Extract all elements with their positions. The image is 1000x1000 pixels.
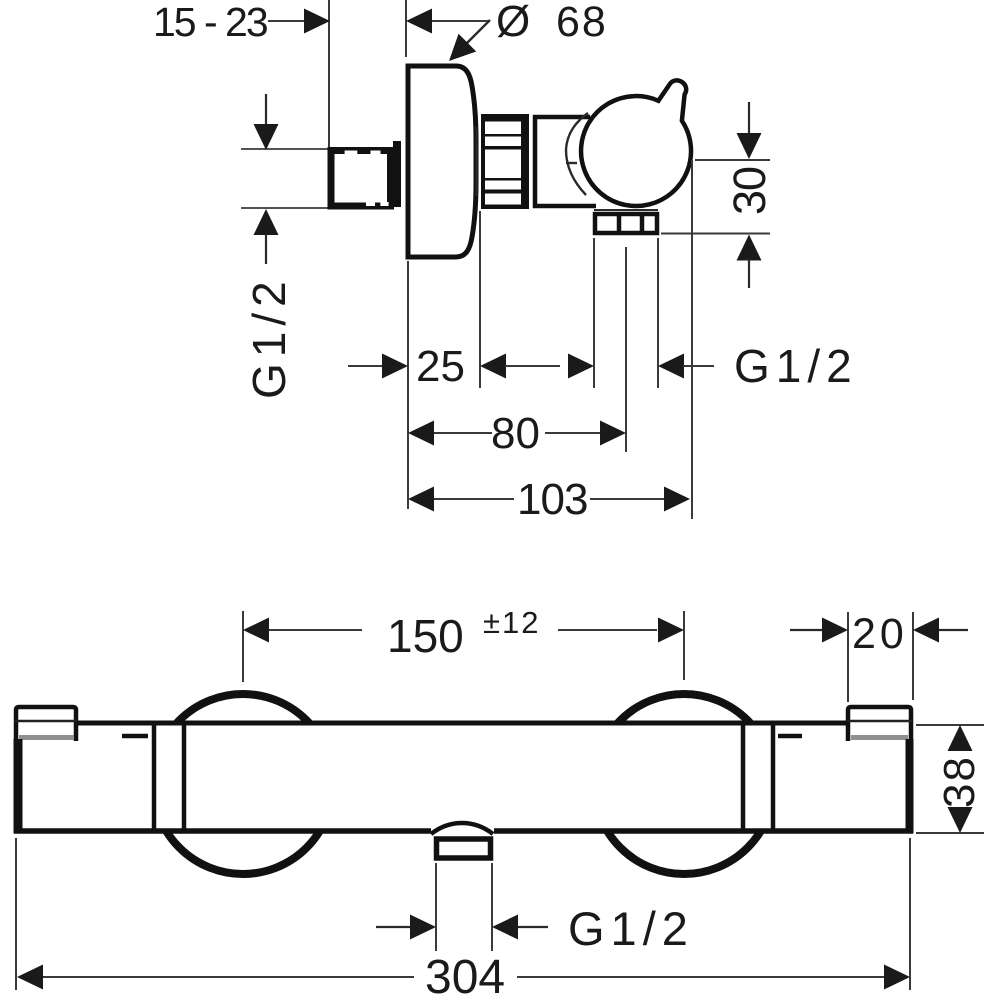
- thread dashes on fitting: [345, 151, 358, 155]
- 38 lower arrow (down): [948, 807, 973, 833]
- svg-text:68: 68: [556, 0, 608, 46]
- 304 dim arrow right: [884, 965, 910, 990]
- left cap inner line: [15, 720, 77, 722]
- svg-text:38: 38: [935, 755, 984, 808]
- 30 bottom extension line: [661, 233, 770, 235]
- leader line for diameter 68: [456, 20, 490, 54]
- svg-text:G1/2: G1/2: [734, 340, 858, 392]
- nut facet lines: [617, 213, 622, 233]
- arrow left at nut right line: [658, 354, 684, 379]
- G1/2 upper arrow (down): [265, 94, 267, 126]
- G1/2 bottom left arrow: [376, 926, 410, 928]
- right escutcheon circle: [594, 694, 774, 874]
- right joint dash: [778, 734, 802, 739]
- hub vertical right-right: [771, 725, 776, 829]
- 20 right extension line: [912, 612, 914, 700]
- svg-text:G1/2: G1/2: [568, 902, 694, 955]
- plate crease line: [476, 127, 478, 196]
- flange tick: [566, 162, 577, 164]
- left escutcheon circle: [153, 694, 333, 874]
- arrow right at wall line: [304, 9, 330, 34]
- hub vertical left-left: [152, 725, 157, 829]
- dim tail right of plate line: [432, 20, 490, 22]
- dim row 103: [408, 487, 434, 512]
- 30 top extension line: [695, 159, 770, 161]
- 20 left arrow: [790, 629, 822, 631]
- outlet nut: [595, 214, 657, 233]
- 38 upper arrow (up): [948, 725, 973, 751]
- wall reference line: [328, 0, 330, 147]
- supply pipe bottom extension line: [241, 207, 328, 209]
- spout collar arc: [431, 823, 493, 834]
- svg-text:15 - 23: 15 - 23: [153, 0, 267, 45]
- arrow right at nut left line: [568, 354, 594, 379]
- svg-text:304: 304: [425, 951, 505, 1000]
- svg-text:150: 150: [387, 610, 464, 662]
- svg-text:Ø: Ø: [496, 0, 530, 46]
- flange arc behind knob: [566, 113, 588, 195]
- svg-text:±12: ±12: [483, 605, 541, 640]
- 150 dim arrow left: [243, 618, 269, 643]
- 304 right extension line: [909, 838, 911, 990]
- left end cap: [16, 707, 76, 741]
- extension line plate front down: [407, 261, 409, 509]
- svg-text:25: 25: [416, 342, 465, 391]
- thermostat knob with lever stub: [581, 80, 691, 206]
- outlet nut top line: [594, 209, 658, 211]
- dim line 15-23 left: [268, 20, 306, 22]
- right cap gray line: [851, 735, 908, 740]
- bar bottom edge right segment: [494, 828, 913, 834]
- spout left extension line: [435, 863, 437, 951]
- svg-text:20: 20: [852, 610, 908, 658]
- spout right extension line: [491, 863, 493, 951]
- extension line nut right down: [657, 238, 659, 388]
- 38 top extension line: [916, 724, 984, 726]
- 150 left extension line: [242, 611, 244, 682]
- extension line nut center down: [625, 247, 627, 452]
- 150 dim arrow right: [658, 618, 684, 643]
- escutcheon plate (side view): [408, 66, 476, 257]
- left joint dash: [122, 734, 148, 739]
- bar left edge: [14, 739, 23, 834]
- extension line nut left down: [593, 238, 595, 388]
- hub vertical right-left: [741, 725, 746, 829]
- G1/2 bottom right arrow: [492, 915, 518, 940]
- 150 right extension line: [683, 611, 685, 680]
- svg-text:30: 30: [724, 167, 775, 215]
- bar right edge: [906, 739, 914, 834]
- connecting line: [505, 365, 560, 367]
- 30 lower arrow (up): [737, 235, 762, 261]
- extension line knob right down: [691, 160, 693, 519]
- dim row 25 / G1/2: [348, 365, 383, 367]
- ribbed adjustment rings: [481, 114, 529, 209]
- plate front extension line: [405, 0, 407, 57]
- extension line rings front down: [479, 211, 481, 388]
- svg-text:G1/2: G1/2: [243, 275, 295, 399]
- svg-text:103: 103: [517, 475, 587, 524]
- step between fitting and plate: [393, 141, 401, 207]
- 30 upper arrow (down): [748, 102, 750, 134]
- wall fitting (square union): [331, 151, 391, 207]
- 20 left extension line: [847, 612, 849, 702]
- G1/2 lower arrow (up): [254, 209, 279, 235]
- bar bottom edge left segment: [14, 828, 431, 834]
- dim row 80: [408, 421, 434, 446]
- 304 left extension line: [15, 838, 17, 990]
- arrow right at plate line: [382, 354, 408, 379]
- bar top edge: [78, 721, 846, 726]
- right cap inner line: [847, 720, 912, 722]
- right end cap: [848, 707, 911, 741]
- hub vertical left-right: [182, 725, 187, 829]
- leader arrowhead at plate top: [440, 34, 476, 70]
- tail to G1/2 label: [683, 365, 714, 367]
- arrow left at rings line: [480, 354, 506, 379]
- valve body behind knob: [533, 115, 538, 208]
- mixer bar body fill: [16, 723, 911, 831]
- arrow left at plate line: [406, 9, 432, 34]
- left cap gray line: [19, 735, 74, 740]
- 304 dim arrow left: [17, 965, 43, 990]
- spout block: [437, 839, 491, 858]
- 20 right arrow: [913, 618, 939, 643]
- supply pipe top extension line: [241, 148, 328, 150]
- 38 bottom extension line: [916, 832, 984, 834]
- svg-text:80: 80: [491, 409, 540, 458]
